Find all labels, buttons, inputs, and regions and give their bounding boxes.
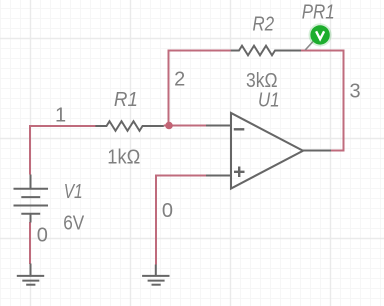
wire node1 horizontal <box>30 125 96 127</box>
svg-text:6V: 6V <box>63 213 85 235</box>
wire node2 top horizontal <box>168 50 232 52</box>
probe PR1 pointer <box>305 42 313 51</box>
svg-text:1: 1 <box>55 104 66 126</box>
svg-text:PR1: PR1 <box>302 2 335 24</box>
probe PR1 v <box>316 31 324 39</box>
battery V1 <box>14 175 49 223</box>
wire node0 V1 to ground <box>29 222 31 264</box>
svg-text:V1: V1 <box>64 181 83 203</box>
ground middle <box>142 265 169 285</box>
svg-text:1kΩ: 1kΩ <box>107 147 140 169</box>
resistor R2 <box>231 46 301 56</box>
resistor R1 <box>95 121 163 131</box>
probe PR1 circle <box>309 23 332 46</box>
wire node2 junction to op-amp <box>164 125 206 127</box>
svg-text:R2: R2 <box>253 14 275 36</box>
wire node3 output horizontal <box>331 150 345 152</box>
wire node3 vertical <box>343 51 345 152</box>
junction node2 <box>165 122 173 130</box>
op-amp U1 <box>206 113 331 189</box>
ground left <box>17 264 44 285</box>
svg-text:2: 2 <box>174 69 185 91</box>
svg-text:0: 0 <box>162 200 173 222</box>
svg-text:3: 3 <box>349 80 360 102</box>
wire node0 op-amp plus horizontal <box>155 175 206 177</box>
wire node3 top horizontal <box>301 50 345 52</box>
svg-text:0: 0 <box>37 225 48 247</box>
svg-text:R1: R1 <box>114 89 138 111</box>
wire node1 vertical to V1 <box>29 125 31 175</box>
wire node2 vertical <box>168 51 170 126</box>
svg-text:U1: U1 <box>258 89 280 111</box>
wire node0 vertical to ground <box>155 176 157 265</box>
